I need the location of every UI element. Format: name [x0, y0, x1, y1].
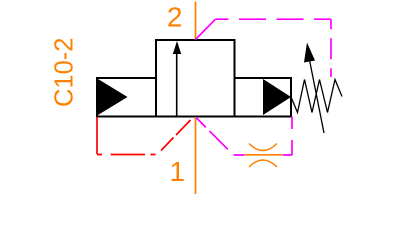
svg-text:2: 2	[167, 1, 183, 32]
svg-text:C10-2: C10-2	[51, 38, 79, 107]
svg-text:1: 1	[170, 156, 186, 187]
